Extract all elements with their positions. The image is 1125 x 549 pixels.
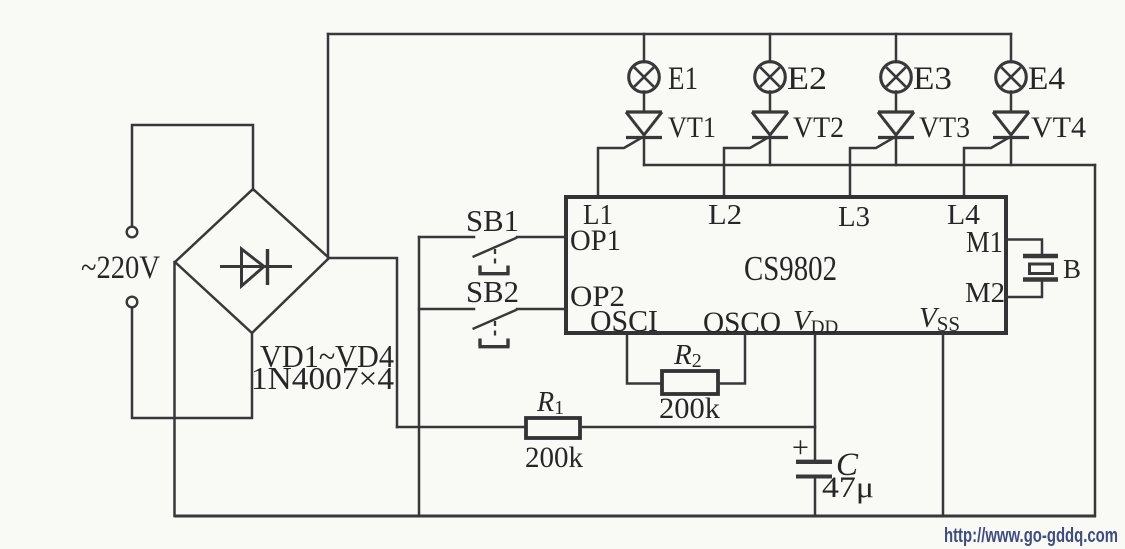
lamp E3: [881, 34, 952, 97]
svg-text:E4: E4: [1028, 61, 1065, 97]
lamp E2: [755, 34, 827, 97]
svg-text:OP1: OP1: [570, 224, 621, 257]
buzzer B wire M1: [1006, 240, 1042, 255]
wire bridge positive output to R1: [329, 258, 397, 427]
svg-text:OSCO: OSCO: [703, 306, 781, 339]
svg-text:CS9802: CS9802: [744, 249, 837, 288]
wire top supply bus: [328, 33, 1011, 36]
svg-text:E3: E3: [913, 61, 952, 97]
lamp E4: [996, 34, 1065, 97]
thyristor VT2: [724, 92, 844, 198]
thyristor VT1: [598, 92, 716, 198]
svg-text:47μ: 47μ: [822, 471, 874, 504]
thyristor VT3: [850, 92, 970, 198]
svg-text:M2: M2: [965, 277, 1005, 309]
thyristor VT4: [964, 92, 1086, 198]
svg-text:SB2: SB2: [466, 274, 519, 309]
svg-text:VT1: VT1: [668, 111, 716, 144]
svg-text:VT4: VT4: [1031, 111, 1086, 144]
wire OSCI to R2: [627, 335, 662, 384]
lamp E1: [629, 34, 698, 97]
wire lower terminal to bridge AC input: [132, 308, 252, 419]
diode symbol inside bridge: [220, 249, 292, 286]
wire thyristor cathode rail: [644, 164, 1095, 167]
wire R1 right to VDD node: [580, 426, 815, 429]
svg-text:L2: L2: [708, 199, 742, 231]
resistor R2: [662, 371, 718, 394]
svg-text:OSCI: OSCI: [590, 303, 658, 338]
svg-text:VT2: VT2: [793, 111, 844, 144]
wire VDD pin down to capacitor: [814, 335, 817, 460]
svg-text:SB1: SB1: [466, 203, 519, 238]
wire switch common rail to ground bus: [418, 237, 421, 516]
wire R2 to OSCO: [718, 335, 745, 384]
svg-text:VT3: VT3: [919, 111, 970, 144]
svg-text:E2: E2: [787, 61, 827, 97]
svg-text:+: +: [792, 431, 809, 464]
svg-text:~220V: ~220V: [81, 250, 160, 286]
terminal upper: [127, 227, 138, 238]
svg-text:E1: E1: [668, 61, 698, 97]
capacitor C: [796, 462, 832, 477]
wire ground bus: [175, 515, 1097, 518]
svg-text:M1: M1: [966, 224, 1003, 259]
wire bridge positive output to top bus: [327, 34, 330, 258]
switch SB1: [419, 203, 566, 274]
buzzer B wire M2: [1006, 281, 1042, 297]
switch SB2: [419, 274, 566, 347]
svg-text:200k: 200k: [525, 441, 583, 474]
wire bridge negative output to ground bus: [173, 262, 176, 516]
wire capacitor to ground bus: [814, 478, 817, 516]
bridge rectifier VD1~VD4 diamond: [175, 189, 329, 333]
wire R1 left: [397, 426, 526, 429]
svg-text:1N4007×4: 1N4007×4: [251, 360, 394, 396]
wire VSS pin to ground bus: [942, 335, 945, 516]
resistor R1: [526, 418, 580, 438]
svg-text:http://www.go-gddq.com: http://www.go-gddq.com: [944, 525, 1118, 547]
wire upper terminal to bridge AC input: [132, 125, 253, 227]
buzzer B element: [1023, 256, 1058, 280]
svg-text:L3: L3: [838, 201, 870, 233]
op-amp U1 : IC CS9802 body: [566, 197, 1006, 333]
svg-text:B: B: [1063, 254, 1081, 284]
terminal lower: [127, 297, 138, 308]
svg-text:200k: 200k: [659, 392, 720, 425]
wire right rail to ground bus: [1094, 165, 1097, 516]
